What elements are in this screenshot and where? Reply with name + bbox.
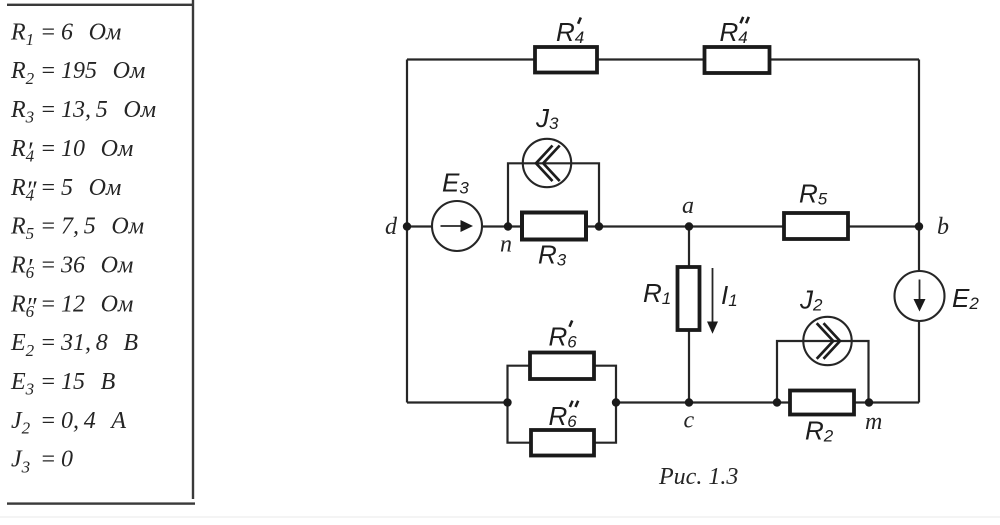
- node J2 left: [773, 398, 781, 406]
- svg-text:R4″: R4″: [10, 175, 38, 205]
- svg-text:=: =: [40, 19, 56, 45]
- svg-text:=: =: [40, 447, 56, 473]
- svg-text:6 Ом: 6 Ом: [61, 19, 121, 45]
- svg-text:15 В: 15 В: [61, 369, 116, 395]
- node R6 left: [503, 398, 511, 406]
- svg-text:0, 4 А: 0, 4 А: [61, 408, 126, 434]
- wire left d vertical: [406, 60, 408, 403]
- table bottom border: [7, 502, 195, 504]
- svg-text:=: =: [40, 214, 56, 240]
- wire middle d-b: [407, 225, 919, 227]
- wire R6p branch: [508, 366, 617, 403]
- node R3 right: [595, 222, 603, 230]
- wire R6pp branch: [508, 403, 617, 443]
- wire bottom right: [616, 401, 919, 403]
- svg-text:a: a: [682, 193, 694, 219]
- source J3: [523, 139, 571, 187]
- source E2: [895, 271, 945, 321]
- arrow I1: [712, 268, 714, 325]
- svg-text:=: =: [40, 369, 56, 395]
- wire top d-b: [407, 58, 919, 60]
- resistor R4p: [535, 47, 597, 73]
- source J2: [803, 317, 851, 365]
- node R6 right: [612, 398, 620, 406]
- node b: [915, 222, 923, 230]
- svg-text:7, 5 Ом: 7, 5 Ом: [61, 214, 144, 240]
- table right border: [192, 0, 194, 499]
- resistor R1: [678, 267, 700, 330]
- wire J3 loop: [508, 163, 599, 226]
- svg-text:=: =: [40, 291, 56, 317]
- node c: [685, 398, 693, 406]
- table top border: [7, 4, 193, 6]
- node a: [685, 222, 693, 230]
- node d: [403, 222, 411, 230]
- svg-text:R6′: R6′: [10, 253, 35, 283]
- faint page rule: [0, 517, 1000, 518]
- node n: [504, 222, 512, 230]
- svg-text:=: =: [40, 136, 56, 162]
- svg-text:R4′: R4′: [10, 136, 35, 166]
- wire J2 loop: [777, 341, 869, 403]
- svg-text:13, 5 Ом: 13, 5 Ом: [61, 97, 156, 123]
- svg-text:=: =: [40, 58, 56, 84]
- svg-text:=: =: [40, 253, 56, 279]
- svg-text:36 Ом: 36 Ом: [60, 253, 133, 279]
- svg-text:n: n: [500, 231, 512, 257]
- svg-text:31, 8 В: 31, 8 В: [60, 330, 138, 356]
- svg-text:=: =: [40, 408, 56, 434]
- svg-text:0: 0: [61, 447, 73, 473]
- svg-text:=: =: [40, 175, 56, 201]
- wire bottom left: [407, 401, 508, 403]
- resistor R5: [784, 213, 848, 239]
- resistor R6p: [530, 353, 594, 380]
- node m: [865, 398, 873, 406]
- svg-text:10 Ом: 10 Ом: [61, 136, 133, 162]
- resistor R4pp: [705, 47, 770, 73]
- resistor R2: [790, 391, 854, 415]
- svg-text:5 Ом: 5 Ом: [61, 175, 121, 201]
- resistor R3: [522, 213, 586, 240]
- svg-text:Рис. 1.3: Рис. 1.3: [658, 464, 738, 490]
- svg-text:c: c: [684, 408, 695, 434]
- svg-text:=: =: [40, 97, 56, 123]
- svg-text:R6″: R6″: [10, 291, 38, 321]
- wire right b vertical: [918, 60, 920, 403]
- svg-text:195 Ом: 195 Ом: [61, 58, 145, 84]
- wire R1 branch: [688, 227, 690, 403]
- svg-text:d: d: [385, 214, 398, 240]
- svg-text:m: m: [865, 409, 882, 435]
- resistor R6pp: [531, 430, 594, 456]
- svg-text:12 Ом: 12 Ом: [61, 291, 133, 317]
- svg-text:=: =: [40, 330, 56, 356]
- source E3: [432, 201, 482, 251]
- svg-text:b: b: [937, 214, 949, 240]
